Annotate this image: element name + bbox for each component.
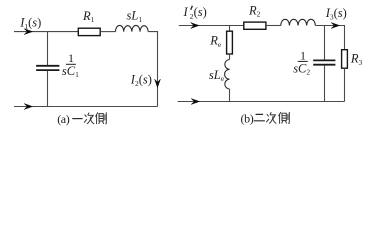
- wire top-left segment (b): [179, 25, 244, 27]
- svg-text:I3(s): I3(s): [325, 6, 347, 21]
- arrow I2' current direction: [191, 23, 199, 29]
- arrow I1 current direction: [24, 29, 32, 35]
- label 1/sC2 fraction: [293, 48, 310, 76]
- caption glyph yi: [72, 118, 82, 120]
- wire sLe bottom lead: [229, 89, 231, 102]
- wire Re to sLe: [229, 54, 231, 60]
- capacitor C2 top lead: [324, 26, 326, 60]
- wire bottom (b): [178, 101, 345, 103]
- inductor sL1: [116, 25, 149, 31]
- label 1/sC1 fraction: [62, 51, 79, 79]
- inductor leakage (b): [281, 19, 316, 25]
- wire top-left segment (a): [14, 31, 78, 33]
- caption glyph ci (b): [266, 112, 276, 123]
- resistor R1: [78, 28, 100, 35]
- arrow I3: [331, 23, 339, 29]
- inductor sLe: [225, 60, 230, 90]
- svg-text:I: I: [183, 5, 189, 19]
- svg-text:(a): (a): [57, 112, 70, 126]
- resistor Re: [227, 31, 233, 54]
- svg-text:(s): (s): [194, 5, 207, 19]
- capacitor C1 bottom lead: [47, 71, 49, 107]
- wire Re top lead: [229, 26, 231, 32]
- svg-text:(b): (b): [241, 112, 254, 126]
- capacitor C2 bottom lead: [324, 65, 326, 101]
- wire bottom (a): [14, 106, 158, 108]
- svg-text:1: 1: [68, 51, 74, 65]
- arrow bottom (b): [191, 99, 199, 105]
- wire R2 to leakage inductor: [266, 25, 281, 27]
- caption glyph ce (b): [279, 112, 290, 124]
- arrow I2 downward: [155, 79, 161, 87]
- resistor R3: [342, 50, 348, 68]
- wire L1 to right corner and right vertical wire (a): [148, 32, 157, 107]
- wire inductor to right corner and right vertical upper lead (b): [315, 26, 344, 50]
- capacitor C2 plates: [313, 60, 335, 64]
- wire R3 bottom lead: [344, 68, 346, 101]
- capacitor C1 top lead: [47, 32, 49, 66]
- arrow bottom (a): [24, 104, 32, 110]
- wire R1 to L1: [100, 31, 115, 33]
- caption glyph ci (a): [84, 113, 94, 124]
- svg-text:1: 1: [300, 48, 306, 62]
- resistor R2: [244, 22, 266, 29]
- svg-text:I1(s): I1(s): [19, 16, 41, 31]
- caption glyph er: [254, 114, 265, 120]
- svg-text:I2(s): I2(s): [130, 73, 152, 88]
- capacitor C1 plates: [36, 66, 59, 70]
- caption glyph ce (a): [96, 112, 107, 124]
